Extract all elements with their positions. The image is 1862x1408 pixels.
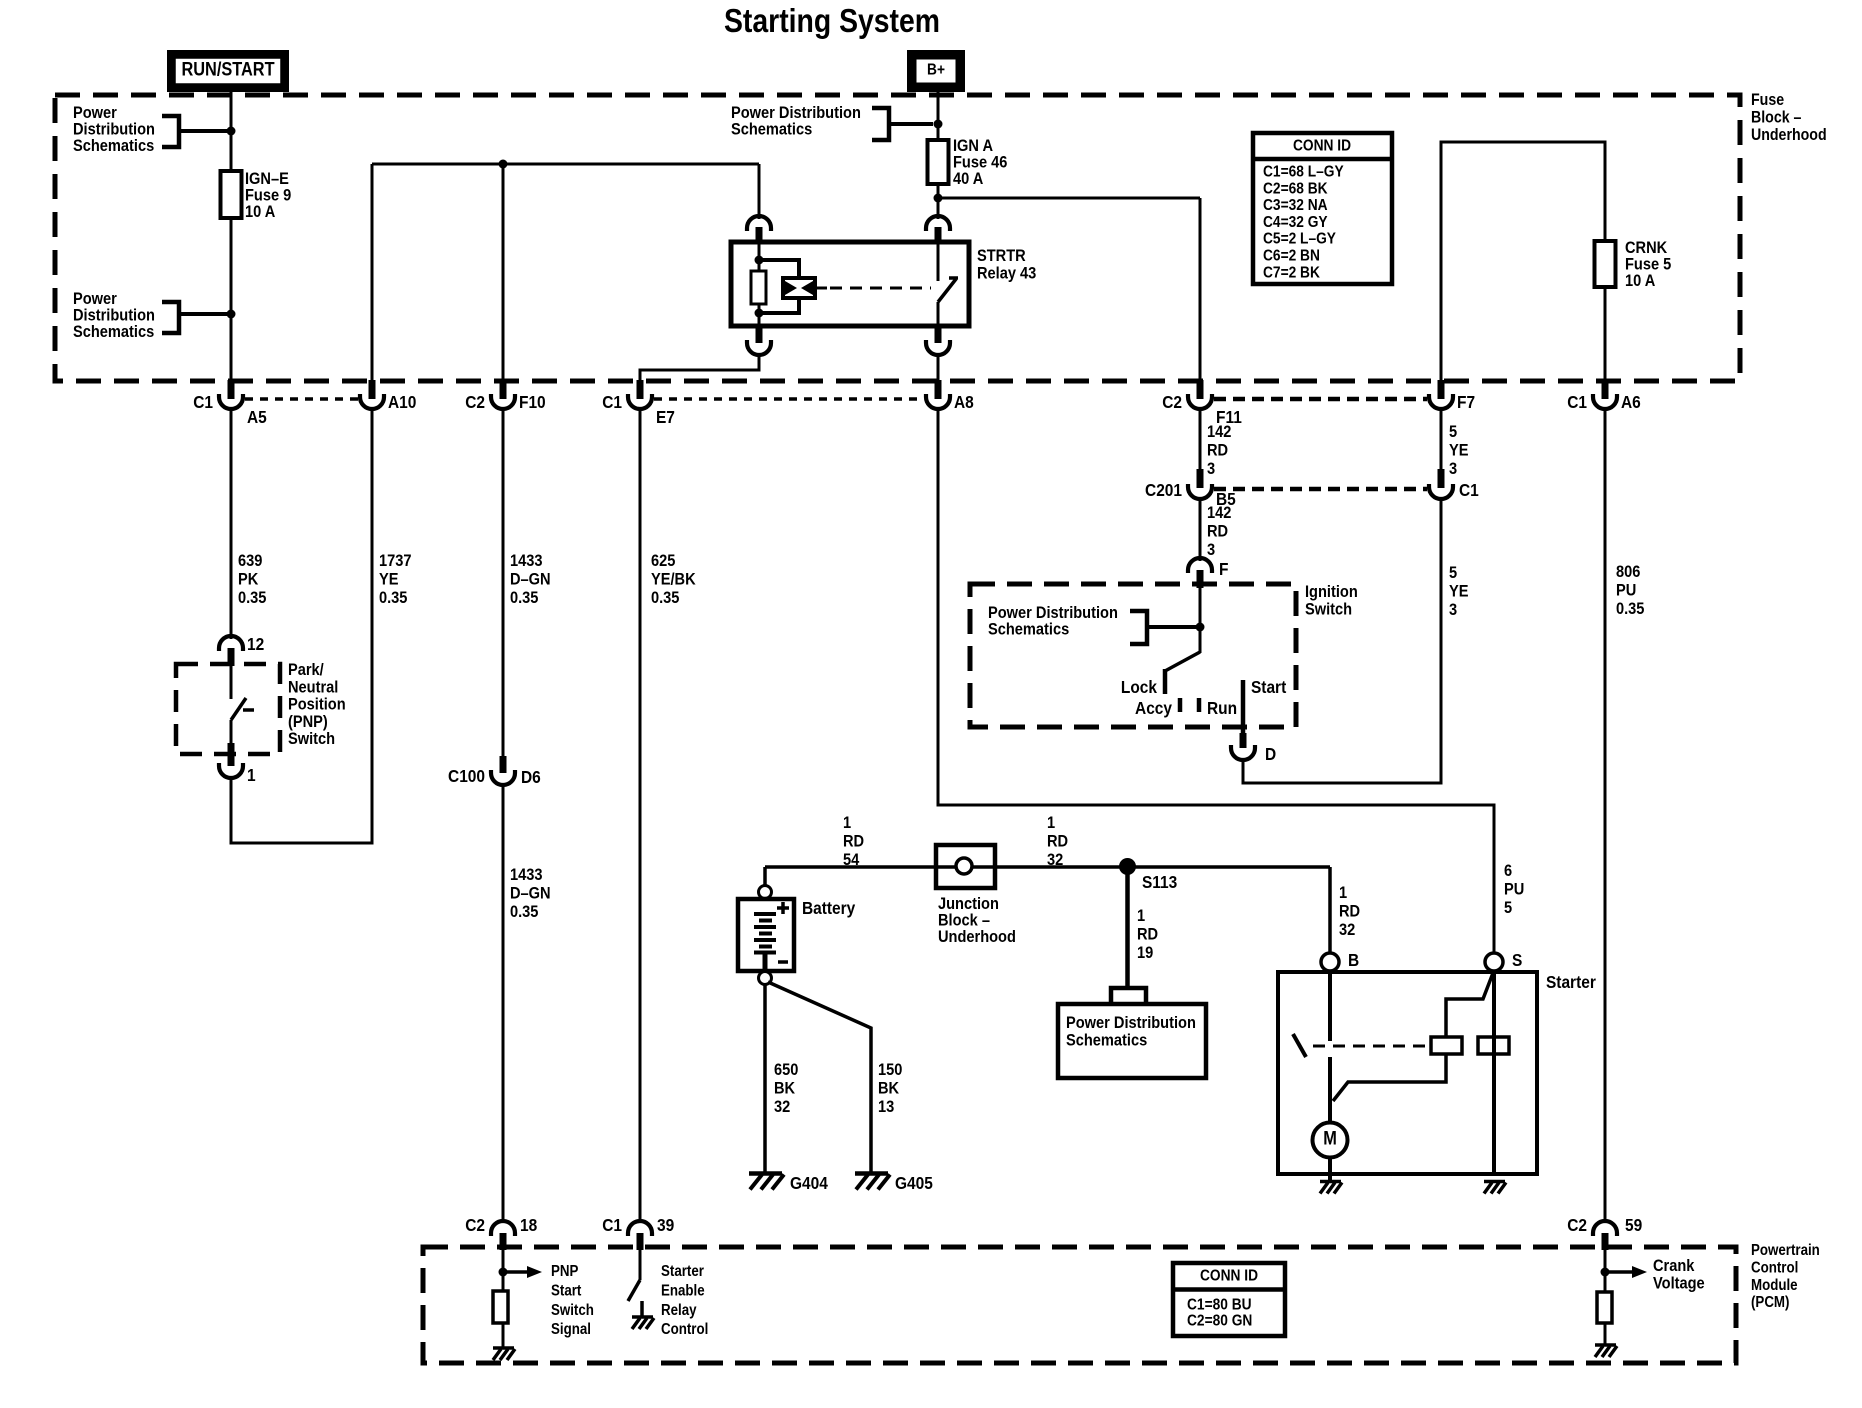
wire F10 down to C100 [502,408,505,757]
starter terminal B [1321,953,1339,971]
svg-text:Park/: Park/ [288,661,324,679]
fuse CRNK Fuse 5 10A [1595,241,1616,287]
ignition Accy terminal tick [1178,698,1183,712]
svg-text:Lock: Lock [1121,677,1158,697]
wire bus down to F10 [502,164,505,382]
connector above relay contact pin [926,216,950,231]
ignition switch feed wire [1199,588,1202,653]
svg-text:32: 32 [1047,851,1063,869]
connector below relay contact pin [935,324,942,343]
svg-text:RD: RD [1339,903,1360,921]
dashed connector group link A5-A10 [245,397,358,401]
junction dot crank voltage [1601,1268,1610,1277]
wire bracket1 to wire [179,129,231,133]
svg-text:F: F [1219,559,1228,579]
svg-text:Schematics: Schematics [73,323,154,341]
svg-text:RUN/START: RUN/START [181,59,274,80]
svg-text:C100: C100 [448,766,485,786]
connector C1 pin A6 [1602,380,1609,399]
wire IGN-E fuse to connector C1-A5 [230,218,233,382]
connector C1 pin E7 [637,380,644,399]
connector pin D at ignition switch [1240,733,1247,748]
svg-text:Control: Control [661,1321,708,1338]
svg-text:Power: Power [73,290,117,308]
svg-text:1: 1 [247,765,256,785]
starter box [1278,972,1537,1174]
connector above relay coil pin 1 [747,216,771,231]
wire E7 down to PCM C1-39 [639,408,642,1220]
svg-text:A5: A5 [247,407,267,427]
relay contact upper wire [937,244,940,281]
svg-text:32: 32 [774,1098,790,1116]
connector pin 12 at PNP switch [219,636,243,651]
svg-text:Battery: Battery [802,898,856,918]
wire PCM resistor to ground [502,1323,505,1348]
svg-text:A8: A8 [954,392,974,412]
svg-text:59: 59 [1625,1215,1642,1235]
svg-text:Crank: Crank [1653,1257,1695,1275]
wire A5 to PNP switch [230,408,233,639]
svg-text:13: 13 [878,1098,894,1116]
wire bracket4 to ignition feed [1147,625,1200,629]
svg-text:Starter: Starter [661,1263,704,1280]
wire A8 down and across to starter S [938,408,1494,952]
PCM crank voltage wire [1604,1250,1607,1292]
battery minus sign [778,960,788,964]
svg-text:Distribution: Distribution [73,307,155,325]
svg-text:3: 3 [1207,541,1215,559]
svg-text:Power: Power [73,104,117,122]
svg-text:C3=32 NA: C3=32 NA [1263,196,1328,214]
svg-text:Schematics: Schematics [1066,1032,1147,1050]
svg-text:RD: RD [1207,523,1228,541]
svg-text:G404: G404 [790,1173,828,1193]
battery negative post [759,972,772,985]
svg-text:Position: Position [288,696,346,714]
svg-text:Start: Start [551,1283,582,1300]
svg-text:A10: A10 [388,392,416,412]
svg-text:Neutral: Neutral [288,678,338,696]
wire relay resistor bottom [758,304,761,324]
wire bracket3 to B+ wire [889,122,933,126]
svg-text:G405: G405 [895,1173,933,1193]
svg-text:5: 5 [1449,423,1457,441]
fuse IGN-E Fuse 9 10A [221,171,242,218]
svg-text:F7: F7 [1457,392,1475,412]
svg-text:D–GN: D–GN [510,885,551,903]
off-page bracket S113 [1111,988,1146,1002]
svg-text:0.35: 0.35 [238,589,267,607]
connector C1 pin A5 [228,380,235,399]
svg-text:0.35: 0.35 [1616,600,1645,618]
PNP switch blade [231,698,246,720]
svg-text:IGN–E: IGN–E [245,170,289,188]
wire CRNK fuse to A6 [1604,287,1607,382]
dashed connector group link C201-C1 [1214,487,1427,492]
starter S blade [1446,973,1493,1037]
svg-text:F10: F10 [519,392,546,412]
svg-text:D: D [1265,744,1276,764]
svg-text:5: 5 [1504,899,1512,917]
svg-text:806: 806 [1616,563,1641,581]
connector pin A10 [369,380,376,399]
resistor in PCM (PNP signal) [493,1291,508,1323]
svg-text:5: 5 [1449,564,1457,582]
dashed connector group link E7-A8 [654,397,924,401]
svg-text:40 A: 40 A [953,170,984,188]
svg-text:3: 3 [1207,460,1215,478]
svg-text:C2: C2 [1162,392,1182,412]
svg-text:C6=2 BN: C6=2 BN [1263,247,1320,265]
connector C2 pin F11 [1197,380,1204,399]
svg-text:(PCM): (PCM) [1751,1294,1790,1311]
node RUN/START (power tap label box) [167,50,289,92]
starter solenoid ground [1484,1180,1505,1184]
svg-text:B: B [1348,950,1359,970]
relay contact lower wire [937,302,940,324]
svg-text:(PNP): (PNP) [288,713,328,731]
svg-text:Enable: Enable [661,1283,705,1300]
svg-text:Junction: Junction [938,895,999,913]
svg-text:Relay 43: Relay 43 [977,265,1036,283]
svg-text:Start: Start [1251,677,1287,697]
splice S113 [1119,858,1136,875]
junction dot PNP signal [499,1268,508,1277]
junction block - underhood [936,845,995,888]
svg-text:YE: YE [1449,442,1468,460]
starter terminal S [1485,953,1503,971]
svg-text:PK: PK [238,571,259,589]
svg-text:C1=68 L–GY: C1=68 L–GY [1263,163,1344,181]
svg-text:3: 3 [1449,460,1457,478]
svg-text:0.35: 0.35 [379,589,408,607]
svg-text:C2=80 GN: C2=80 GN [1187,1312,1252,1330]
svg-text:C2: C2 [465,392,485,412]
svg-text:Module: Module [1751,1277,1798,1294]
connector below relay coil pin 2 [756,324,763,343]
junction dot IGN A output [934,194,943,203]
wire bus down to A10 [371,164,374,382]
relay coil to armature dashed link [815,287,827,290]
svg-text:Block –: Block – [938,912,990,930]
connector pin F at ignition switch [1188,558,1212,573]
relay STRTR Relay 43 box [731,242,969,326]
svg-text:142: 142 [1207,423,1232,441]
svg-text:C4=32 GY: C4=32 GY [1263,213,1328,231]
svg-text:S: S [1512,950,1522,970]
ignition Lock terminal [1163,669,1168,694]
junction dot on bus at F10 drop [499,160,508,169]
resistor in STRTR relay [751,271,766,304]
svg-text:Starting System: Starting System [724,2,940,40]
svg-text:Fuse 9: Fuse 9 [245,187,291,205]
wire CRNK feed bus at top right [1441,142,1605,382]
fuse block - underhood (dashed outline) [55,95,1740,381]
ground G404 [749,1171,782,1176]
wire B+ down to IGN A fuse [937,92,940,140]
CONN ID table (fuse block) [1253,133,1392,284]
svg-text:RD: RD [1137,926,1158,944]
relay switch blade [938,279,956,302]
svg-text:E7: E7 [656,407,675,427]
starter solenoid coil 1 [1431,1037,1462,1054]
junction dot ignition feed [1196,623,1205,632]
wire relay contact to A8 [937,354,940,382]
connector C201 pin B5 [1197,469,1204,488]
starter motor M [1313,1123,1348,1158]
wire bracket2 to wire [179,312,231,316]
svg-text:142: 142 [1207,504,1232,522]
connector C2 pin 18 at PCM [491,1221,515,1236]
svg-text:CRNK: CRNK [1625,239,1668,257]
svg-text:C1: C1 [602,392,622,412]
svg-text:Switch: Switch [288,730,335,748]
svg-text:Signal: Signal [551,1321,591,1338]
PNP switch upper wire [230,666,233,699]
battery plus sign [777,906,789,910]
svg-text:Underhood: Underhood [938,928,1016,946]
wire RUN/START down to IGN-E fuse [230,92,233,171]
svg-text:Switch: Switch [1305,601,1352,619]
PCM PNP start switch signal wire [502,1250,505,1291]
svg-text:RD: RD [843,833,864,851]
connector pin F7 [1438,380,1445,399]
svg-text:STRTR: STRTR [977,247,1026,265]
wire F11 to C201 [1199,408,1202,470]
arrow crank voltage [1605,1270,1632,1274]
wire battery post up [763,867,767,886]
svg-text:Power Distribution: Power Distribution [1066,1014,1196,1032]
svg-text:M: M [1323,1128,1337,1149]
svg-text:Accy: Accy [1135,698,1173,718]
power distribution schematics box [1058,1004,1206,1078]
wire PCM crank resistor to ground [1604,1323,1607,1345]
starter solenoid coil 2 (on S wire) [1478,1037,1509,1054]
svg-text:Ignition: Ignition [1305,583,1358,601]
PCM starter enable relay control switch [639,1250,642,1280]
svg-text:YE: YE [1449,583,1468,601]
connector C2 pin 59 at PCM [1593,1221,1617,1236]
junction dot power distribution tap at B+ [934,120,943,129]
starter B internal wire [1328,972,1332,1041]
wire F7 to C1 [1440,408,1443,470]
svg-text:Fuse 5: Fuse 5 [1625,256,1671,274]
svg-text:C7=2 BK: C7=2 BK [1263,263,1320,281]
svg-text:Block –: Block – [1751,108,1802,126]
wire battery positive to junction block and S113 [765,865,1330,869]
wire relay pin2 to E7 [640,354,759,382]
svg-text:1: 1 [843,814,851,832]
svg-text:39: 39 [657,1215,674,1235]
svg-text:10 A: 10 A [1625,272,1656,290]
junction dot relay coil bottom [755,309,764,318]
svg-text:1433: 1433 [510,866,543,884]
svg-text:C1: C1 [602,1215,622,1235]
CONN ID table (PCM) [1173,1263,1285,1336]
relay coil input wire [758,244,761,271]
wire IGN A output to F11 drop [938,197,1200,200]
PCM starter enable ground stub [640,1301,644,1317]
svg-text:0.35: 0.35 [510,589,539,607]
svg-text:RD: RD [1047,833,1068,851]
svg-text:D6: D6 [521,767,541,787]
starter motor ground wire [1328,1158,1332,1181]
svg-text:Run: Run [1207,698,1237,718]
park/neutral position PNP switch dashed box [176,664,280,754]
svg-text:C2=68 BK: C2=68 BK [1263,179,1328,197]
ignition switch wiper to Lock [1165,652,1200,671]
svg-text:C1: C1 [1567,392,1587,412]
svg-text:Distribution: Distribution [73,121,155,139]
svg-text:18: 18 [520,1215,537,1235]
ground G405 [855,1171,888,1176]
ignition Start terminal [1241,680,1246,733]
svg-text:Schematics: Schematics [731,121,812,139]
wire PNP pin1 loop to A10 [231,408,372,843]
svg-text:PNP: PNP [551,1263,579,1280]
svg-text:Underhood: Underhood [1751,126,1827,144]
ground starter enable relay control [632,1315,653,1319]
svg-text:S113: S113 [1142,872,1177,892]
svg-text:C201: C201 [1145,480,1182,500]
svg-text:Control: Control [1751,1260,1798,1277]
svg-text:Power Distribution: Power Distribution [988,604,1118,622]
connector pin A8 [935,380,942,399]
svg-text:BK: BK [878,1080,900,1098]
svg-text:C1: C1 [1459,480,1479,500]
svg-text:1: 1 [1047,814,1055,832]
wire C100 to PCM C2-18 [502,784,505,1220]
wire down to F11 [1199,198,1202,382]
svg-text:Power Distribution: Power Distribution [731,104,861,122]
svg-text:1: 1 [1339,884,1347,902]
svg-text:650: 650 [774,1061,799,1079]
connector pin C1 (ignition run/crank feed) [1438,469,1445,488]
wire junction S113 bus corner to starter B [1328,867,1332,953]
svg-text:Fuse 46: Fuse 46 [953,154,1008,172]
connector pin 1 at PNP switch [228,743,235,766]
svg-text:625: 625 [651,552,676,570]
wire C1 down and around to ignition switch D [1243,498,1441,783]
resistor in PCM (crank voltage) [1597,1292,1612,1323]
svg-text:639: 639 [238,552,263,570]
svg-text:1737: 1737 [379,552,412,570]
svg-text:0.35: 0.35 [651,589,680,607]
svg-text:YE/BK: YE/BK [651,571,696,589]
wire bus down to relay coil pin [758,164,761,219]
junction dot at power distribution tap 2 [227,310,236,319]
svg-text:Powertrain: Powertrain [1751,1242,1820,1259]
svg-text:Schematics: Schematics [988,621,1069,639]
relay coil symbol (box with X) [783,278,815,298]
svg-text:Switch: Switch [551,1302,594,1319]
ignition switch dashed box [970,584,1296,727]
svg-text:150: 150 [878,1061,903,1079]
svg-text:0.35: 0.35 [510,903,539,921]
node B+ (battery feed label box) [907,50,965,92]
svg-text:32: 32 [1339,921,1355,939]
starter contact blade [1293,1034,1306,1057]
svg-text:C2: C2 [465,1215,485,1235]
wire bus to A10/F10 and relay coil, y=164 [372,163,759,166]
svg-text:12: 12 [247,634,264,654]
svg-text:YE: YE [379,571,398,589]
svg-text:CONN ID: CONN ID [1200,1267,1258,1285]
svg-text:C1: C1 [193,392,213,412]
connector C2 pin F10 [500,380,507,399]
arrow PNP start switch signal [503,1270,527,1274]
junction dot at power distribution tap 1 [227,127,236,136]
starter coil1 to motor contact [1333,1054,1446,1101]
connector C1 pin 39 at PCM [628,1221,652,1236]
svg-text:B+: B+ [927,61,945,79]
starter motor ground [1320,1180,1341,1184]
battery [759,886,772,899]
wire B5 to ignition switch F [1199,498,1202,561]
wire battery negative to G404 [763,984,767,1172]
starter motor feed wire [1328,1057,1332,1122]
svg-text:CONN ID: CONN ID [1293,137,1351,155]
svg-text:19: 19 [1137,944,1153,962]
relay coil parallel loop [759,260,799,313]
svg-text:PU: PU [1616,582,1636,600]
svg-text:Starter: Starter [1546,972,1596,992]
ignition Run terminal tick [1197,698,1202,712]
powertrain control module PCM dashed box [423,1247,1736,1363]
svg-text:1433: 1433 [510,552,543,570]
svg-text:C2: C2 [1567,1215,1587,1235]
svg-text:1: 1 [1137,907,1145,925]
wire S113 to power distribution [1125,867,1130,988]
wire A6 down to PCM C2-59 [1604,408,1607,1222]
svg-text:C5=2 L–GY: C5=2 L–GY [1263,230,1336,248]
svg-text:3: 3 [1449,601,1457,619]
svg-text:Voltage: Voltage [1653,1275,1705,1293]
ground inside PCM left [493,1346,514,1350]
svg-text:6: 6 [1504,862,1512,880]
junction dot relay coil top [755,256,764,265]
wire IGN A fuse to relay contact [937,184,940,219]
svg-text:RD: RD [1207,442,1228,460]
svg-text:BK: BK [774,1080,796,1098]
svg-text:Schematics: Schematics [73,137,154,155]
svg-text:A6: A6 [1621,392,1641,412]
starter solenoid dashed link [1313,1045,1429,1048]
connector C100 pin D6 [500,756,507,773]
starter S internal wire [1492,971,1496,1174]
ground inside PCM right [1595,1343,1616,1347]
svg-text:Fuse: Fuse [1751,91,1785,109]
fuse IGN A Fuse 46 40A [928,140,949,184]
svg-text:D–GN: D–GN [510,571,551,589]
svg-text:10 A: 10 A [245,203,276,221]
wire battery negative to G405 [768,982,871,1172]
dashed connector group link F11-F7 [1214,397,1427,402]
svg-text:Relay: Relay [661,1302,697,1319]
svg-text:PU: PU [1504,881,1524,899]
svg-text:IGN A: IGN A [953,137,994,155]
PNP switch lower wire [230,720,233,743]
